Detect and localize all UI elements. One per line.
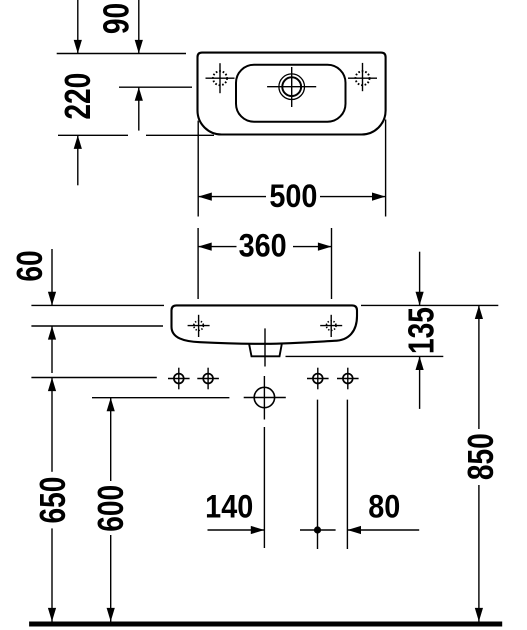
ground line	[29, 622, 502, 627]
svg-text:135: 135	[401, 307, 441, 354]
dim 500 right extension line	[385, 120, 387, 217]
faucet crosshair horizontal	[267, 86, 316, 88]
dim 650 upper arrow up	[48, 378, 56, 392]
dim 360 line right	[293, 246, 332, 248]
left punch hole dashed circle	[213, 71, 227, 85]
dim 500 line right	[320, 196, 386, 198]
dim 60 upper line	[51, 249, 53, 305]
dim 600 lower arrow down	[107, 608, 115, 622]
rim level line right	[361, 304, 498, 306]
fixing hole 1	[168, 368, 190, 390]
right punch hole cross	[348, 77, 377, 79]
drain trap below basin	[249, 344, 282, 356]
dim 135 lower arrow up	[416, 356, 424, 370]
dim 360 right extension line	[331, 228, 333, 299]
elevation left wall hole dashed circle	[194, 321, 204, 331]
rim level line left	[31, 304, 164, 306]
fixing hole level line	[31, 377, 156, 379]
svg-text:600: 600	[91, 485, 131, 532]
dim 90 left arrow down	[74, 40, 82, 54]
dim 90 lower arrow up	[135, 87, 143, 101]
dim 850 upper arrow up	[475, 305, 483, 319]
hole extension line x=317.5	[317, 400, 319, 549]
dim 650 lower line	[51, 528, 53, 621]
dim 600 lower line	[110, 535, 112, 622]
dim 90 left extension line	[77, 0, 79, 54]
basin bowl inner outline	[236, 65, 346, 122]
front edge level line left	[58, 134, 128, 136]
dim 850 upper line	[478, 305, 480, 429]
svg-text:60: 60	[10, 250, 50, 281]
fixing hole 2	[197, 368, 219, 390]
svg-text:80: 80	[368, 489, 400, 525]
dim 650 lower arrow down	[48, 608, 56, 622]
fixing hole 4	[337, 368, 359, 390]
svg-text:220: 220	[58, 73, 98, 120]
dim 90 lower line	[138, 87, 140, 130]
dim 850 lower arrow down	[475, 608, 483, 622]
dim 90 right arrow down	[135, 40, 143, 54]
dim 220 arrow up	[74, 135, 82, 149]
center line below trap	[263, 376, 265, 420]
right punch hole dashed circle	[356, 71, 370, 85]
common point line	[300, 529, 336, 531]
dim 600 upper line	[110, 398, 112, 481]
svg-text:140: 140	[205, 489, 253, 525]
dim 135 lower line	[419, 356, 421, 409]
dim 135 upper line	[419, 252, 421, 306]
dim 135 extension line down arrow	[416, 292, 424, 306]
dim 80 line	[347, 529, 419, 531]
faucet hole outer circle	[279, 74, 305, 100]
drain extension line down	[263, 427, 265, 548]
center line above trap	[264, 328, 266, 366]
drain hole circle	[254, 387, 274, 407]
basin elevation outline	[172, 305, 358, 343]
elevation right wall hole cross	[320, 325, 342, 327]
svg-text:650: 650	[33, 477, 73, 524]
dim 500 left extension line	[197, 121, 199, 217]
dim 600 upper arrow up	[107, 398, 115, 412]
dim 500 left arrow	[198, 193, 212, 201]
rim level line top	[57, 53, 186, 55]
svg-text:90: 90	[96, 3, 136, 34]
drain level line	[92, 397, 229, 399]
dim 90 right extension line upper	[138, 0, 140, 54]
faucet hole inner circle	[282, 77, 301, 96]
dim 140 arrow right	[251, 526, 265, 534]
svg-text:360: 360	[239, 228, 287, 264]
dim 850 lower line	[478, 485, 480, 622]
hole extension line x=347.4	[346, 400, 348, 549]
dim 650 upper line	[51, 378, 53, 472]
dim 500 line left	[198, 196, 266, 198]
left punch hole cross	[206, 77, 235, 79]
trap bottom level line	[286, 355, 444, 357]
dim 360 left extension line	[197, 228, 199, 299]
elevation right wall hole dashed circle	[326, 321, 336, 331]
dim 220 lower line	[77, 135, 79, 185]
common point dot	[314, 526, 321, 533]
dim 60 lower arrow up	[48, 326, 56, 340]
dim 360 left arrow	[198, 243, 212, 251]
dim 360 line left	[198, 246, 236, 248]
svg-text:500: 500	[269, 179, 317, 215]
drain crosshair horizontal	[244, 397, 286, 399]
svg-text:850: 850	[461, 433, 501, 480]
faucet level line	[119, 86, 192, 88]
dim 60 lower line	[51, 326, 53, 373]
dim 500 right arrow	[372, 193, 386, 201]
front edge level line right	[146, 134, 214, 136]
fixing hole 3	[307, 368, 329, 390]
dim 60 upper arrow down	[48, 292, 56, 306]
elevation left wall hole cross	[188, 325, 210, 327]
dim 80 arrow left	[347, 526, 361, 534]
basin plan outline	[198, 53, 386, 135]
faucet crosshair vertical	[291, 67, 293, 107]
dim 140 line	[208, 529, 265, 531]
wall hole level line	[31, 325, 163, 327]
dim 360 right arrow	[318, 243, 332, 251]
